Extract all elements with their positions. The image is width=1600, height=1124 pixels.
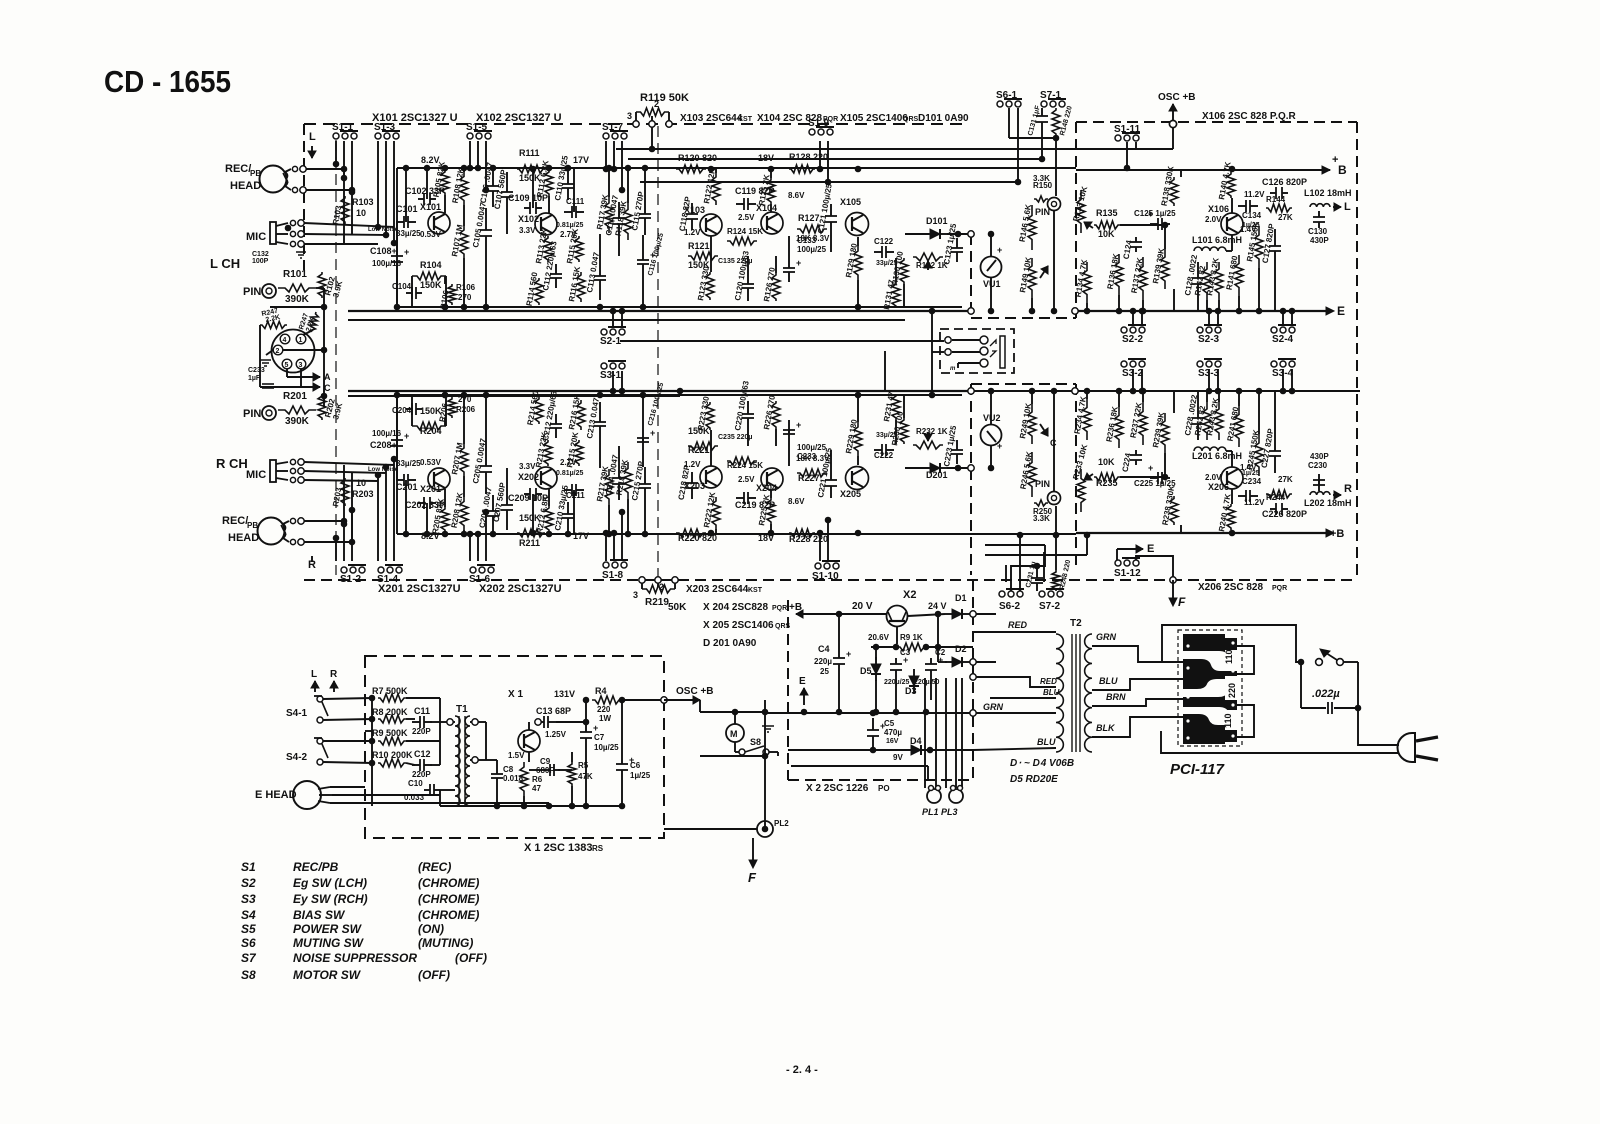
svg-text:X2: X2 [903, 589, 916, 601]
wire [463, 168, 465, 172]
resistor R126 [772, 273, 780, 301]
wire [903, 284, 905, 307]
wire [548, 196, 550, 213]
svg-text:33µ/25: 33µ/25 [396, 229, 421, 238]
wire s2 stub [1282, 311, 1284, 325]
wire S1 stub [343, 524, 345, 561]
pot R119 term3 [666, 121, 672, 127]
wire din to r101 [316, 287, 324, 289]
capacitor C124 [1130, 237, 1142, 252]
wire grn right2 [1092, 646, 1183, 662]
wire red mid [973, 677, 1056, 687]
svg-text:220: 220 [1227, 683, 1237, 698]
wire [405, 480, 407, 503]
arrow OSC +B [1169, 104, 1177, 121]
wire to PL [935, 678, 937, 788]
wire bottom bus2 [348, 310, 971, 312]
wire [463, 258, 465, 307]
wire S1 stub [605, 533, 607, 561]
svg-text:D101: D101 [926, 216, 948, 226]
wire [426, 168, 428, 199]
svg-text:S2-3: S2-3 [1198, 334, 1220, 345]
junction [442, 304, 448, 310]
svg-text:S2: S2 [241, 876, 256, 890]
wire din bottom [260, 386, 313, 388]
terminal bus LCH right [1072, 308, 1078, 314]
din pin 1 [296, 334, 306, 344]
din pin 2 [273, 345, 283, 355]
svg-text:PO: PO [878, 784, 890, 793]
dashed oscillator box [365, 656, 664, 838]
junction stub [383, 232, 389, 238]
resistor R135 [1094, 473, 1120, 481]
svg-text:PQR: PQR [1272, 585, 1287, 592]
dash-dot shield mid [657, 126, 659, 578]
svg-text:OSC +B: OSC +B [1158, 92, 1196, 103]
svg-text:24 V: 24 V [928, 601, 947, 611]
wire pin5 [286, 369, 288, 377]
diode D5 [871, 657, 881, 681]
wire r248 to pin RCH [1055, 506, 1057, 535]
switch S2-1 [601, 327, 626, 335]
wire S1 stub [819, 141, 821, 169]
svg-text:D101 0A90: D101 0A90 [918, 113, 969, 124]
wire [396, 395, 398, 434]
switch S3-1 [601, 361, 626, 369]
wire [1206, 300, 1208, 311]
wire s6-1 bar [1009, 137, 1056, 139]
wire osc b v [1172, 128, 1174, 149]
svg-text:C104: C104 [392, 282, 412, 291]
wire B rail [1076, 169, 1330, 171]
junction [461, 304, 467, 310]
svg-text:R204: R204 [420, 426, 442, 436]
switch S5 node [1298, 659, 1304, 665]
capacitor C125 [1148, 209, 1170, 230]
meter VU2 [981, 425, 1002, 446]
wire bottom bus [397, 306, 962, 308]
wire [396, 268, 398, 307]
resistor R216 [577, 400, 585, 430]
capacitor C226 [1270, 503, 1288, 515]
capacitor C205 [480, 444, 492, 494]
wire s1-11 mid down [1126, 142, 1128, 168]
capacitor C122 [874, 444, 894, 456]
svg-text:S1-6: S1-6 [469, 574, 491, 585]
svg-text:R104: R104 [420, 260, 442, 270]
resistor R234 [1083, 399, 1091, 440]
resistor R113 [544, 236, 552, 262]
svg-text:R106: R106 [456, 283, 476, 292]
wire [1231, 168, 1233, 172]
resistor R203 [341, 478, 349, 506]
junction [442, 165, 448, 171]
capacitor C107 [501, 172, 513, 217]
wire S1 stub [605, 141, 607, 169]
resistor R135 [1094, 221, 1120, 229]
pot R219 term3 [672, 577, 678, 583]
svg-text:X 1 2SC 1383: X 1 2SC 1383 [524, 842, 593, 854]
svg-text:S4-1: S4-1 [286, 708, 308, 719]
pot R232 [913, 441, 943, 449]
resistor R249 [1028, 404, 1036, 444]
svg-text:X 1: X 1 [508, 689, 523, 700]
wire mid cross2 [348, 395, 680, 397]
svg-text:R227: R227 [798, 473, 820, 483]
svg-text:REC/PB: REC/PB [293, 860, 339, 874]
wire to PL [961, 678, 963, 788]
svg-text:20 V: 20 V [852, 601, 873, 612]
capacitor C121 [825, 204, 837, 234]
capacitor C109 [524, 202, 542, 214]
wire [567, 530, 569, 534]
capacitor C4 [833, 649, 851, 672]
wire s7-2 r248 up [1055, 535, 1057, 570]
capacitor C13 [536, 716, 556, 728]
svg-text:PIN: PIN [1035, 479, 1050, 489]
svg-text:C204: C204 [392, 406, 412, 415]
resistor R128 [789, 165, 815, 173]
transistor X103 [700, 214, 722, 236]
svg-text:50K: 50K [668, 602, 687, 613]
resistor R218 [624, 462, 632, 499]
resistor R104 [412, 272, 446, 280]
wire [857, 395, 859, 422]
transformer T1 secondary [465, 716, 470, 806]
wire s2 stub [1208, 311, 1210, 325]
svg-text:X203: X203 [684, 481, 705, 491]
transistor X206 [1221, 467, 1243, 489]
capacitor C108 [391, 431, 409, 452]
wire s3 stub [1282, 369, 1284, 391]
svg-text:C11: C11 [414, 706, 430, 716]
resistor R237 [1139, 402, 1147, 445]
svg-text:PB: PB [247, 521, 258, 530]
wire s1-11 right down [1135, 142, 1137, 149]
svg-text:D4: D4 [910, 736, 922, 746]
wire s3 stub [1208, 369, 1210, 391]
wire [426, 503, 428, 534]
svg-text:3.3K: 3.3K [1033, 514, 1050, 523]
resistor R127 [797, 225, 827, 233]
wire [895, 420, 897, 444]
wire E rail LCH [1076, 310, 1332, 312]
PCI pattern white gap2 [1183, 679, 1237, 697]
svg-text:11.2V: 11.2V [1244, 190, 1265, 199]
svg-text:100µ/25: 100µ/25 [797, 245, 827, 254]
svg-text:390K: 390K [285, 416, 310, 427]
pot R133 [1077, 190, 1085, 233]
resistor R107 [460, 226, 468, 258]
wire top link [270, 306, 324, 308]
svg-text:L102 18mH: L102 18mH [1304, 188, 1352, 198]
wire to PL [924, 678, 926, 788]
svg-text:C9: C9 [540, 757, 551, 766]
capacitor C119 [736, 492, 756, 504]
svg-text:X 205 2SC1406: X 205 2SC1406 [703, 620, 774, 631]
svg-text:R211: R211 [519, 538, 540, 548]
wire [599, 446, 601, 468]
svg-text:R121: R121 [688, 241, 710, 251]
resistor R130 [900, 258, 908, 284]
svg-text:8.2V: 8.2V [421, 531, 440, 541]
wire s1-12 left up [1116, 549, 1118, 560]
resistor R139 [1161, 249, 1169, 289]
resistor R140 [1227, 172, 1235, 198]
dashed border bottom [304, 579, 1357, 581]
arrow L output [1333, 203, 1341, 211]
capacitor C206 [487, 495, 499, 532]
wire cap left [1301, 707, 1326, 709]
wires head to block [306, 168, 344, 170]
svg-text:PL2: PL2 [774, 819, 789, 828]
capacitor C234 [1238, 490, 1258, 502]
wire S1 stub [469, 141, 471, 168]
wire [1197, 391, 1199, 402]
head terminal a [292, 166, 297, 171]
PCI pin hole [1231, 641, 1234, 644]
inductor L102 [1310, 204, 1330, 207]
svg-text:220P: 220P [412, 727, 431, 736]
capacitor .022 [1328, 702, 1332, 714]
svg-text:OSC +B: OSC +B [676, 686, 714, 697]
svg-text:PIN: PIN [243, 286, 261, 298]
svg-text:(CHROME): (CHROME) [418, 908, 479, 922]
arrow C [301, 383, 320, 391]
resistor R101 [278, 284, 316, 292]
wire [1206, 391, 1208, 402]
svg-text:RED: RED [1008, 620, 1028, 630]
junction [768, 166, 774, 172]
svg-text:(CHROME): (CHROME) [418, 892, 479, 906]
wire r119 wiper down [651, 127, 653, 149]
diode D3 [909, 669, 919, 693]
jack body [1000, 336, 1005, 368]
svg-text:1.2V: 1.2V [684, 460, 701, 469]
svg-text:+: + [796, 420, 801, 430]
capacitor C216 [637, 428, 655, 452]
svg-text:CD - 1655: CD - 1655 [104, 64, 231, 99]
wire mid545 [985, 544, 1045, 546]
svg-text:X206 2SC 828: X206 2SC 828 [1198, 582, 1263, 593]
svg-text:BLK: BLK [1096, 723, 1116, 733]
junction [768, 530, 774, 536]
junction stub [333, 161, 339, 167]
capacitor C3 [890, 655, 908, 676]
svg-text:25: 25 [820, 667, 829, 676]
svg-text:131V: 131V [554, 689, 575, 699]
rec/pb head top [260, 166, 287, 193]
svg-text:R221: R221 [688, 445, 710, 455]
svg-text:S1-8: S1-8 [602, 570, 624, 581]
svg-text:BIAS SW: BIAS SW [293, 908, 346, 922]
wire s2-1 stub [612, 311, 614, 327]
wire S1 stub [393, 459, 395, 561]
svg-text:C233: C233 [248, 367, 265, 374]
svg-text:X202: X202 [518, 472, 539, 482]
junction [424, 531, 430, 537]
svg-text:C208+: C208+ [370, 440, 397, 450]
wire S1 stub [377, 141, 379, 227]
svg-text:X103: X103 [684, 205, 705, 215]
pot R132 [913, 253, 943, 261]
dashed power box right [972, 580, 974, 780]
din pin 3 [296, 359, 306, 369]
junction [394, 304, 400, 310]
svg-text:0.81µ/25: 0.81µ/25 [556, 470, 583, 477]
resistor R226 [772, 401, 780, 429]
svg-text:NOISE SUPPRESSOR: NOISE SUPPRESSOR [293, 951, 417, 965]
wire pci top [1162, 625, 1303, 662]
svg-text:S1-7: S1-7 [602, 122, 624, 133]
junction stub [475, 531, 481, 537]
capacitor C221 [825, 468, 837, 498]
svg-text:RS: RS [592, 844, 604, 853]
svg-text:+: + [796, 258, 801, 268]
svg-text:C211: C211 [566, 491, 585, 500]
wire shield v1b [343, 465, 345, 521]
wire [1197, 300, 1199, 311]
resistor R129 [854, 246, 862, 280]
svg-text:110: 110 [1224, 649, 1234, 664]
junction [483, 304, 489, 310]
wire [463, 530, 465, 534]
wire [548, 489, 550, 506]
wire [642, 274, 644, 307]
transistor X106 [1221, 213, 1243, 235]
svg-text:R127: R127 [798, 213, 820, 223]
svg-text:L: L [311, 669, 317, 680]
jack left terminal [945, 337, 951, 343]
head2 terminal c [290, 539, 295, 544]
resistor R238 [1170, 496, 1178, 525]
transistor X205 [846, 467, 869, 490]
svg-text:(OFF): (OFF) [418, 968, 450, 982]
svg-text:S7: S7 [241, 951, 257, 965]
capacitor C134 [1238, 200, 1258, 212]
junction [708, 166, 714, 172]
capacitor C119 [736, 198, 756, 210]
inductor L201 [1194, 447, 1226, 451]
resistor R213 [544, 440, 552, 466]
svg-text:X205: X205 [840, 489, 861, 499]
wire c231 up [1036, 566, 1038, 570]
wire [627, 168, 629, 203]
svg-text:17V: 17V [573, 155, 589, 165]
PCI pin hole [1186, 719, 1189, 722]
wire jack link2 [952, 351, 980, 353]
switch S3-2 [1121, 359, 1146, 367]
svg-text:X204: X204 [756, 483, 777, 493]
rec/pb head bottom [258, 518, 285, 545]
capacitor C210 [562, 502, 574, 530]
svg-text:S1-4: S1-4 [377, 574, 399, 585]
switch S1-11 [1115, 133, 1140, 141]
junction stub [483, 187, 489, 193]
resistor R142 [1203, 262, 1211, 300]
resistor R229 [854, 422, 862, 456]
wire S1 stub [343, 141, 345, 178]
capacitor C126 [1270, 187, 1288, 199]
svg-text:S7-2: S7-2 [1039, 601, 1061, 612]
wire [492, 532, 494, 534]
svg-text:X105: X105 [840, 197, 861, 207]
PCI pin hole [1186, 666, 1189, 669]
wire shield v1 [343, 169, 345, 243]
svg-text:R10 200K: R10 200K [372, 750, 413, 760]
node osc out [661, 697, 667, 703]
junction stub [611, 530, 617, 536]
motor gnd [762, 726, 774, 732]
svg-text:R128 220: R128 220 [789, 152, 828, 162]
svg-text:C126 820P: C126 820P [1262, 177, 1307, 187]
svg-text:1.2V: 1.2V [684, 228, 701, 237]
transformer T2 secondary [1085, 634, 1092, 752]
junction [708, 530, 714, 536]
svg-text:S1-5: S1-5 [466, 122, 488, 133]
resistor R148 [1052, 108, 1060, 136]
svg-text:220: 220 [597, 705, 611, 714]
wire s2 stub [1132, 311, 1134, 325]
svg-text:R9 500K: R9 500K [372, 728, 408, 738]
wire [857, 532, 859, 534]
dashed VU strip bottom LCH [971, 317, 1076, 319]
svg-text:C10: C10 [408, 779, 423, 788]
svg-text:(REC): (REC) [418, 860, 451, 874]
wire sw to cap [1357, 662, 1359, 708]
capacitor C7 [580, 723, 598, 744]
wire [405, 168, 407, 199]
svg-text:2: 2 [654, 99, 659, 109]
svg-text:T1: T1 [456, 704, 468, 715]
resistor R6 [520, 762, 528, 796]
svg-text:POWER SW: POWER SW [293, 922, 363, 936]
svg-text:10: 10 [356, 478, 366, 488]
pot R219 [642, 585, 675, 593]
svg-text:1.5V: 1.5V [508, 751, 525, 760]
wire jack feed4 [884, 351, 886, 391]
svg-text:QRS: QRS [775, 623, 791, 630]
wire [411, 276, 413, 307]
PCI pin hole [1186, 644, 1189, 647]
junction [565, 531, 571, 537]
capacitor C102 [418, 497, 436, 509]
svg-text:MOTOR SW: MOTOR SW [293, 968, 362, 982]
capacitor C8 [491, 768, 503, 784]
wire to PL [945, 678, 947, 788]
wire S1 stub [621, 512, 623, 561]
wire [775, 429, 777, 446]
resistor R105 [441, 170, 449, 195]
svg-text:KST: KST [748, 587, 763, 594]
svg-text:220µ: 220µ [814, 657, 832, 666]
wire s3 stub [1132, 369, 1134, 391]
capacitor C218 [686, 472, 698, 499]
switch S1-10 [815, 561, 840, 569]
svg-text:R119 50K: R119 50K [640, 92, 689, 104]
svg-text:R232 1K: R232 1K [916, 427, 948, 436]
capacitor C118 [686, 203, 698, 230]
junction stub [333, 535, 339, 541]
wire [775, 256, 777, 273]
wire red top [973, 631, 1056, 633]
arrow F [1169, 598, 1177, 606]
svg-text:4: 4 [283, 337, 287, 344]
svg-text:m: m [950, 366, 956, 372]
resistor R136 [1115, 254, 1123, 295]
switch S7-1 [1041, 99, 1066, 107]
transistor X102 [535, 213, 557, 235]
